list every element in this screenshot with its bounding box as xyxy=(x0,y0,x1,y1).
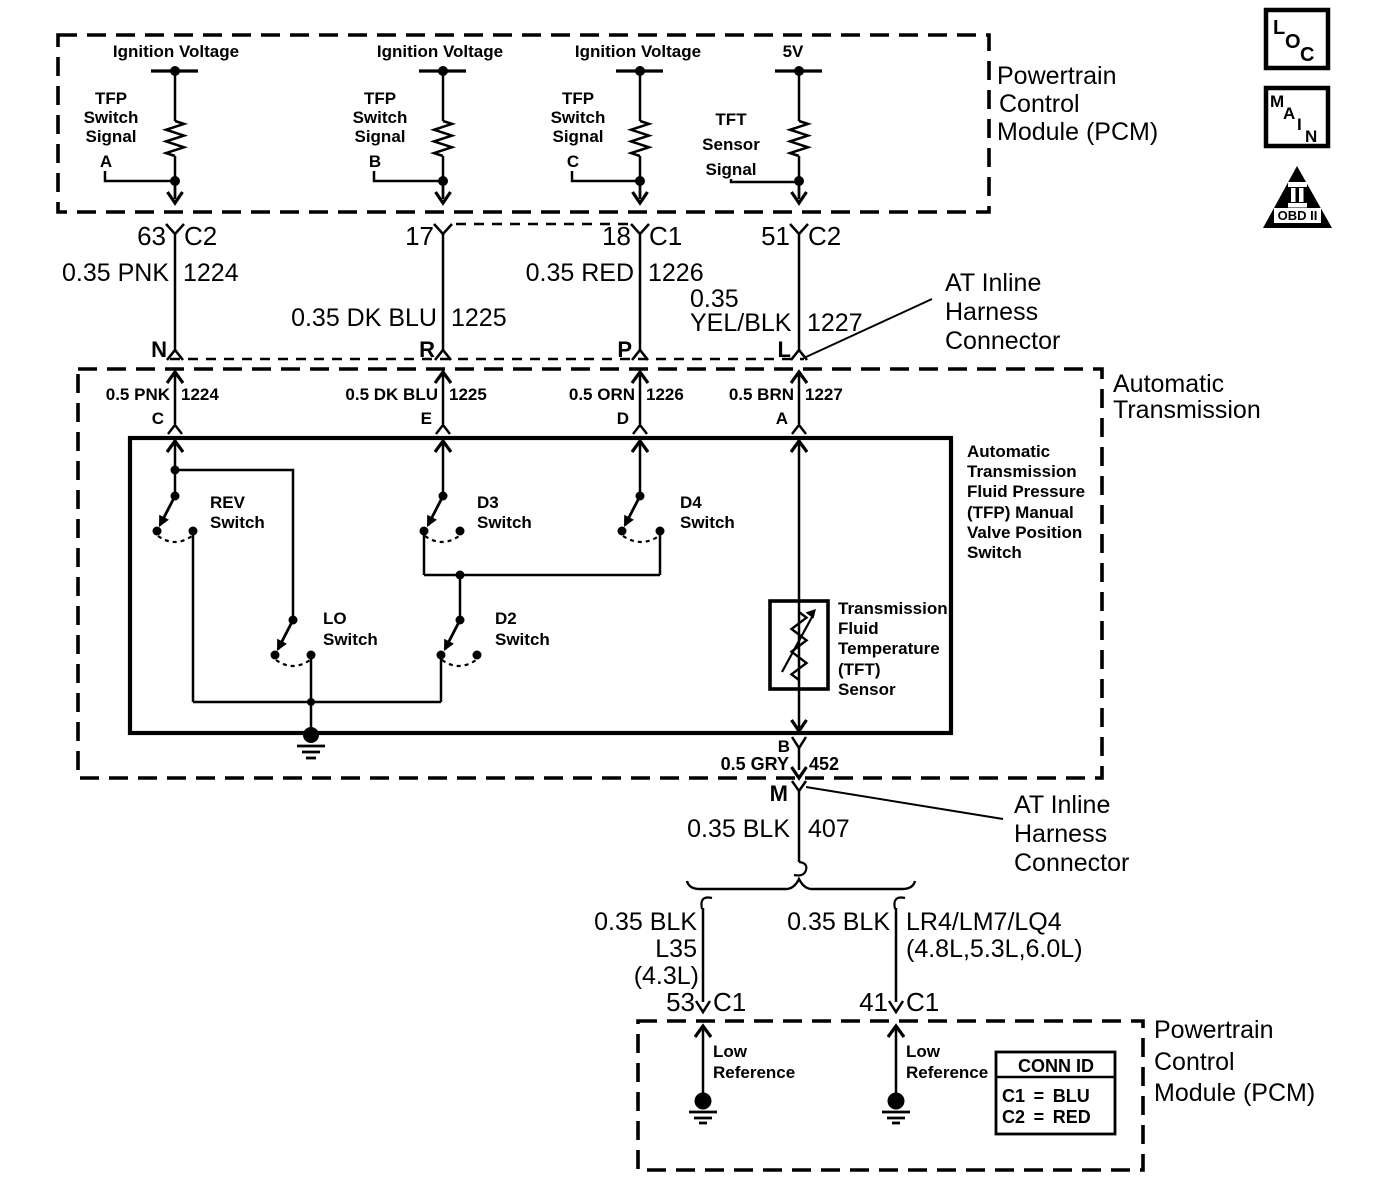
wire xyxy=(639,181,642,199)
svg-text:L35: L35 xyxy=(655,935,697,963)
connector Y xyxy=(166,224,184,234)
connector receptacle above AT boundary xyxy=(167,350,183,360)
svg-text:Switch: Switch xyxy=(495,630,550,649)
svg-text:1225: 1225 xyxy=(451,304,507,332)
node E (TFP switch pin) xyxy=(421,409,432,428)
svg-text:41: 41 xyxy=(859,987,888,1017)
contact xyxy=(473,651,482,660)
wire xyxy=(798,71,801,121)
wire break squiggle xyxy=(794,862,806,875)
svg-text:1225: 1225 xyxy=(449,385,487,404)
wire 1224-7 circuit xyxy=(798,234,801,350)
junction D4 feed xyxy=(636,492,645,501)
svg-text:Signal: Signal xyxy=(705,160,756,179)
contact xyxy=(656,527,665,536)
svg-text:Sensor: Sensor xyxy=(702,135,760,154)
junction D2 feed xyxy=(456,616,465,625)
leader line to AT inline connector xyxy=(806,299,932,357)
wire supply rail tick xyxy=(419,69,466,72)
svg-text:0.5 PNK: 0.5 PNK xyxy=(106,385,171,404)
node Ignition Voltage supply col 1 xyxy=(113,42,239,61)
connector arrow into switch housing xyxy=(435,441,451,452)
label 0.35 PNK 1224 xyxy=(62,259,239,287)
wire into transmission xyxy=(798,372,801,424)
label Low Reference xyxy=(713,1042,795,1082)
contact xyxy=(271,651,280,660)
connector arrow into AT xyxy=(167,372,183,383)
label Transmission Fluid Temperature (TFT) Sensor xyxy=(838,599,948,699)
junction LO feed xyxy=(289,616,298,625)
label TFP Switch Signal signal xyxy=(551,89,606,146)
wire xyxy=(442,71,445,121)
ground (switch common) xyxy=(297,727,325,758)
svg-text:C1: C1 xyxy=(649,221,682,251)
svg-text:Temperature: Temperature xyxy=(838,639,940,658)
svg-text:0.5 ORN: 0.5 ORN xyxy=(569,385,635,404)
switch D4 travel arc xyxy=(623,536,659,542)
switch LO travel arc xyxy=(276,660,310,666)
label 0.35 BLK (LR4/LM7/LQ4 4.8/5.3/6.0L) xyxy=(787,908,1082,963)
svg-text:C2 = RED: C2 = RED xyxy=(1002,1107,1091,1127)
svg-text:407: 407 xyxy=(808,815,850,843)
connector arrow at AT boundary xyxy=(792,767,807,778)
wire into transmission xyxy=(442,372,445,424)
pin letter B (PCM internal) xyxy=(369,152,381,171)
svg-text:1227: 1227 xyxy=(807,309,863,337)
svg-text:Fluid Pressure: Fluid Pressure xyxy=(967,482,1085,501)
connector receptacle at switch housing xyxy=(792,425,806,434)
connector arrow into AT xyxy=(435,372,451,383)
svg-text:Low: Low xyxy=(713,1042,748,1061)
svg-text:Sensor: Sensor xyxy=(838,680,896,699)
connector receptacle above AT boundary xyxy=(632,350,648,360)
connector arrow into AT xyxy=(791,372,807,383)
svg-text:L: L xyxy=(1273,17,1285,39)
pin letter A (PCM internal) xyxy=(100,152,112,171)
svg-text:Automatic: Automatic xyxy=(1113,370,1224,398)
connector arrow out of PCM xyxy=(633,192,648,203)
connector arrow into AT xyxy=(632,372,648,383)
svg-text:Module (PCM): Module (PCM) xyxy=(997,118,1158,146)
svg-text:Signal: Signal xyxy=(354,127,405,146)
svg-text:1226: 1226 xyxy=(646,385,684,404)
svg-text:N: N xyxy=(151,337,167,362)
connector arrow into switch housing xyxy=(632,441,648,452)
connector arrow into PCM xyxy=(888,1026,904,1037)
svg-text:0.5 GRY: 0.5 GRY xyxy=(721,754,789,774)
wire D3 output xyxy=(423,531,426,575)
junction xyxy=(456,571,465,580)
wire bus to ground xyxy=(193,701,441,704)
svg-text:18: 18 xyxy=(602,221,631,251)
svg-text:AT Inline: AT Inline xyxy=(945,269,1041,297)
svg-text:Low: Low xyxy=(906,1042,941,1061)
label 0.5 PNK 1224 xyxy=(106,385,220,404)
resistor PCM pull-up C xyxy=(631,121,649,156)
svg-text:B: B xyxy=(369,152,381,171)
svg-text:Automatic: Automatic xyxy=(967,442,1050,461)
svg-text:0.5 BRN: 0.5 BRN xyxy=(729,385,794,404)
label Powertrain Control Module (PCM) upper xyxy=(997,62,1158,146)
svg-text:1227: 1227 xyxy=(805,385,843,404)
pin B xyxy=(778,737,790,756)
wire 452 circuit xyxy=(798,748,801,770)
connector arrow into PCM xyxy=(695,1026,711,1037)
junction D3 feed xyxy=(439,492,448,501)
svg-text:C: C xyxy=(567,152,579,171)
svg-text:E: E xyxy=(421,409,432,428)
wire signal tap elbow xyxy=(731,179,799,182)
connector receptacle at switch housing xyxy=(436,425,450,434)
junction xyxy=(794,176,804,186)
wire xyxy=(174,156,177,197)
switch D3 blade xyxy=(427,496,443,527)
contact xyxy=(618,527,627,536)
wire supply rail tick xyxy=(616,69,663,72)
svg-text:D3: D3 xyxy=(477,493,499,512)
connector Y xyxy=(790,224,808,234)
TFP manual valve position switch housing (solid box) xyxy=(130,438,951,733)
pin 51 C2 xyxy=(761,221,841,251)
connector arrow out of PCM xyxy=(792,192,807,203)
label TFT Sensor Signal signal xyxy=(702,110,760,179)
resistor PCM pull-up A xyxy=(166,121,184,156)
junction REV feed xyxy=(171,492,180,501)
svg-text:0.35 RED: 0.35 RED xyxy=(526,259,634,287)
wire D4 output xyxy=(659,531,662,575)
connector arrow out of PCM xyxy=(436,192,451,203)
svg-text:(TFP) Manual: (TFP) Manual xyxy=(967,503,1074,522)
svg-text:0.35 BLK: 0.35 BLK xyxy=(787,908,890,936)
svg-text:Connector: Connector xyxy=(945,327,1060,355)
svg-text:53: 53 xyxy=(666,987,695,1017)
svg-text:Module (PCM): Module (PCM) xyxy=(1154,1079,1315,1107)
wire D2 output xyxy=(440,655,443,702)
resistor PCM pull-up B xyxy=(434,121,452,156)
wire xyxy=(639,71,642,121)
icon MAIN box xyxy=(1266,88,1328,146)
svg-text:C2: C2 xyxy=(184,221,217,251)
node C (TFP switch pin) xyxy=(152,409,164,428)
svg-text:(TFT): (TFT) xyxy=(838,660,880,679)
junction xyxy=(170,176,180,186)
contact xyxy=(307,651,316,660)
node P (AT inline connector pin) xyxy=(617,337,632,362)
wire signal tap elbow xyxy=(105,171,175,181)
contact xyxy=(437,651,446,660)
connector receptacle at switch housing xyxy=(168,425,182,434)
pin 18 C1 xyxy=(602,221,682,251)
svg-text:0.35 DK BLU: 0.35 DK BLU xyxy=(291,304,437,332)
svg-text:A: A xyxy=(1283,104,1295,123)
svg-text:(4.8L,5.3L,6.0L): (4.8L,5.3L,6.0L) xyxy=(906,935,1083,963)
svg-text:C: C xyxy=(1300,44,1314,66)
label 0.35 DK BLU 1225 xyxy=(291,304,507,332)
wire xyxy=(639,156,642,197)
svg-text:O: O xyxy=(1285,31,1301,53)
wire xyxy=(798,441,801,728)
svg-text:Ignition Voltage: Ignition Voltage xyxy=(113,42,239,61)
pin M xyxy=(770,781,788,806)
svg-text:0.35 BLK: 0.35 BLK xyxy=(594,908,697,936)
svg-text:TFP: TFP xyxy=(364,89,396,108)
label AT Inline Harness Connector upper xyxy=(945,269,1060,355)
node Ignition Voltage supply col 2 xyxy=(377,42,503,61)
connector arrow out of PCM xyxy=(168,192,183,203)
svg-text:Transmission: Transmission xyxy=(967,462,1077,481)
label TFP Switch Signal signal xyxy=(353,89,408,146)
wire to D2 feed xyxy=(459,575,462,620)
contact xyxy=(189,527,198,536)
connector receptacle above AT boundary xyxy=(435,350,451,360)
wire xyxy=(798,156,801,197)
svg-text:1226: 1226 xyxy=(648,259,704,287)
wire xyxy=(442,181,445,199)
junction xyxy=(438,176,448,186)
junction xyxy=(635,66,645,76)
svg-text:Switch: Switch xyxy=(967,543,1022,562)
resistor PCM pull-up TFT xyxy=(790,121,808,156)
wire into transmission xyxy=(639,372,642,424)
junction xyxy=(171,466,180,475)
connector Y pin M xyxy=(792,781,806,791)
svg-text:C2: C2 xyxy=(808,221,841,251)
wire supply rail tick xyxy=(775,69,822,72)
switch REV travel arc xyxy=(158,536,192,542)
svg-text:TFT: TFT xyxy=(715,110,747,129)
node Ignition Voltage supply col 3 xyxy=(575,42,701,61)
wire xyxy=(442,156,445,197)
label Low Reference xyxy=(906,1042,988,1082)
svg-text:Ignition Voltage: Ignition Voltage xyxy=(575,42,701,61)
PCM module outline (dashed box, Powertrain Control Module) xyxy=(58,35,989,212)
wire low reference xyxy=(702,1026,705,1094)
pin 63 C2 xyxy=(137,221,217,251)
svg-text:Harness: Harness xyxy=(945,298,1038,326)
connector Y xyxy=(631,224,649,234)
label D4 Switch xyxy=(680,493,735,532)
svg-text:Switch: Switch xyxy=(210,513,265,532)
svg-text:A: A xyxy=(776,409,788,428)
wire 1224-7 circuit xyxy=(442,234,445,350)
pin 53 C1 xyxy=(666,987,746,1017)
svg-text:D: D xyxy=(617,409,629,428)
svg-text:A: A xyxy=(100,152,112,171)
svg-text:Switch: Switch xyxy=(353,108,408,127)
label TFP Switch Signal signal xyxy=(84,89,139,146)
wire 1224-7 circuit xyxy=(639,234,642,350)
label AT Inline Harness Connector lower xyxy=(1014,791,1129,877)
svg-text:C1: C1 xyxy=(906,987,939,1017)
connector receptacle above AT boundary xyxy=(791,350,807,360)
svg-text:Connector: Connector xyxy=(1014,849,1129,877)
wire D3-D4 bus xyxy=(424,574,660,577)
svg-text:Reference: Reference xyxy=(713,1063,795,1082)
thermistor arrow xyxy=(782,609,816,672)
icon OBD II triangle xyxy=(1263,166,1332,228)
splice brace xyxy=(687,879,915,889)
switch D4 blade xyxy=(624,496,640,527)
connector Y pin 53 xyxy=(696,1001,710,1012)
wire supply rail tick xyxy=(151,69,198,72)
svg-text:Powertrain: Powertrain xyxy=(997,62,1117,90)
svg-text:Switch: Switch xyxy=(477,513,532,532)
label D3 Switch xyxy=(477,493,532,532)
label 0.35 BLK (L35 4.3L) xyxy=(594,908,699,990)
contact xyxy=(420,527,429,536)
switch D3 travel arc xyxy=(425,536,459,542)
switch D2 travel arc xyxy=(442,660,476,666)
wire into transmission xyxy=(174,372,177,424)
svg-text:CONN ID: CONN ID xyxy=(1018,1056,1094,1076)
label D2 Switch xyxy=(495,609,550,649)
ground (PCM low reference) xyxy=(689,1093,717,1124)
svg-text:TFP: TFP xyxy=(95,89,127,108)
wire branch to LO switch xyxy=(175,470,293,620)
leader line to lower AT inline connector xyxy=(806,787,1003,819)
pin 41 C1 xyxy=(859,987,939,1017)
node A (TFP switch pin) xyxy=(776,409,788,428)
svg-text:Fluid: Fluid xyxy=(838,619,879,638)
wire break hook L35 branch xyxy=(701,897,712,909)
svg-text:63: 63 xyxy=(137,221,166,251)
switch REV blade xyxy=(159,496,175,527)
svg-text:C1: C1 xyxy=(713,987,746,1017)
svg-text:Signal: Signal xyxy=(85,127,136,146)
junction xyxy=(635,176,645,186)
svg-text:D4: D4 xyxy=(680,493,702,512)
junction xyxy=(307,698,315,706)
wire LR4 branch xyxy=(895,908,898,1002)
label Automatic Transmission xyxy=(1113,370,1261,424)
svg-text:452: 452 xyxy=(809,754,839,774)
wire xyxy=(798,181,801,199)
label Automatic Transmission Fluid Pressure (TFP) Manual Valve Position Switch xyxy=(967,442,1085,562)
ground (PCM low reference) xyxy=(882,1093,910,1124)
svg-text:N: N xyxy=(1305,127,1317,146)
wire xyxy=(174,181,177,199)
svg-text:D2: D2 xyxy=(495,609,517,628)
svg-text:C1 = BLU: C1 = BLU xyxy=(1002,1086,1090,1106)
label REV Switch xyxy=(210,493,265,532)
wire 407 circuit xyxy=(798,791,801,862)
junction xyxy=(438,66,448,76)
svg-text:1224: 1224 xyxy=(183,259,239,287)
svg-text:1224: 1224 xyxy=(181,385,219,404)
node N (AT inline connector pin) xyxy=(151,337,167,362)
svg-text:Switch: Switch xyxy=(680,513,735,532)
svg-text:REV: REV xyxy=(210,493,246,512)
wire signal tap elbow xyxy=(374,171,443,181)
connector receptacle at switch housing xyxy=(633,425,647,434)
connector arrow into switch housing xyxy=(167,441,183,452)
wire xyxy=(174,71,177,121)
label Powertrain Control Module (PCM) lower xyxy=(1154,1016,1315,1107)
connector Y pin B xyxy=(792,737,806,748)
svg-text:Switch: Switch xyxy=(551,108,606,127)
wire 1224-7 circuit xyxy=(174,234,177,350)
contact xyxy=(153,527,162,536)
svg-text:Switch: Switch xyxy=(84,108,139,127)
svg-text:C: C xyxy=(152,409,164,428)
wire low reference xyxy=(895,1026,898,1094)
switch D2 blade xyxy=(444,620,460,651)
svg-text:I: I xyxy=(1297,115,1302,134)
svg-text:17: 17 xyxy=(405,221,434,251)
wire LO output to ground xyxy=(310,655,313,733)
icon LOC box xyxy=(1266,10,1328,68)
resistor TFT thermistor xyxy=(792,612,807,680)
label 0.35 RED 1226 xyxy=(526,259,704,287)
node L (AT inline connector pin) xyxy=(778,337,791,362)
wire signal tap elbow xyxy=(572,171,640,181)
svg-text:Valve Position: Valve Position xyxy=(967,523,1082,542)
wire L35 branch xyxy=(702,908,705,1002)
svg-text:(4.3L): (4.3L) xyxy=(634,962,699,990)
svg-text:M: M xyxy=(770,781,788,806)
svg-text:Transmission: Transmission xyxy=(838,599,948,618)
svg-text:Ignition Voltage: Ignition Voltage xyxy=(377,42,503,61)
connector Y xyxy=(434,224,452,234)
svg-text:Switch: Switch xyxy=(323,630,378,649)
junction xyxy=(170,66,180,76)
svg-text:YEL/BLK: YEL/BLK xyxy=(690,309,792,337)
label 0.35 BLK 407 xyxy=(687,815,850,843)
svg-text:0.5 DK BLU: 0.5 DK BLU xyxy=(345,385,438,404)
svg-text:5V: 5V xyxy=(783,42,804,61)
node R (AT inline connector pin) xyxy=(419,337,435,362)
connector Y pin 41 xyxy=(889,1001,903,1012)
svg-text:Control: Control xyxy=(1154,1048,1235,1076)
svg-text:0.35 PNK: 0.35 PNK xyxy=(62,259,169,287)
switch LO blade xyxy=(277,620,293,651)
svg-text:51: 51 xyxy=(761,221,790,251)
wire xyxy=(442,441,445,496)
svg-text:Transmission: Transmission xyxy=(1113,396,1261,424)
label 0.5 BRN 1227 xyxy=(729,385,843,404)
junction xyxy=(794,66,804,76)
AT inline harness connector (dashed line) xyxy=(170,358,804,360)
sensor TFT box xyxy=(770,601,828,689)
PCM module outline lower (dashed box) xyxy=(638,1021,1143,1170)
wire break hook LR4 branch xyxy=(894,897,905,909)
connector C1 dashed link (pins 17-18) xyxy=(456,223,628,225)
label 0.35 YEL/BLK 1227 xyxy=(690,285,863,337)
svg-text:0.35 BLK: 0.35 BLK xyxy=(687,815,790,843)
svg-text:LR4/LM7/LQ4: LR4/LM7/LQ4 xyxy=(906,908,1062,936)
label 0.5 GRY 452 xyxy=(721,754,839,774)
pin 17 xyxy=(405,221,434,251)
label LO Switch xyxy=(323,609,378,649)
contact xyxy=(456,527,465,536)
label 0.5 DK BLU 1225 xyxy=(345,385,486,404)
connector arrow out of switch box xyxy=(792,720,807,731)
node 5V supply col 4 xyxy=(783,42,804,61)
wire REV output xyxy=(192,531,195,702)
svg-text:Signal: Signal xyxy=(552,127,603,146)
connector arrow into switch housing xyxy=(791,441,807,452)
svg-text:Harness: Harness xyxy=(1014,820,1107,848)
svg-text:Control: Control xyxy=(999,90,1080,118)
svg-text:OBD II: OBD II xyxy=(1278,208,1318,223)
pin letter C (PCM internal) xyxy=(567,152,579,171)
wire xyxy=(174,441,177,496)
wire xyxy=(639,441,642,496)
svg-text:Powertrain: Powertrain xyxy=(1154,1016,1274,1044)
table CONN ID xyxy=(996,1052,1115,1134)
node D (TFP switch pin) xyxy=(617,409,629,428)
label 0.5 ORN 1226 xyxy=(569,385,684,404)
